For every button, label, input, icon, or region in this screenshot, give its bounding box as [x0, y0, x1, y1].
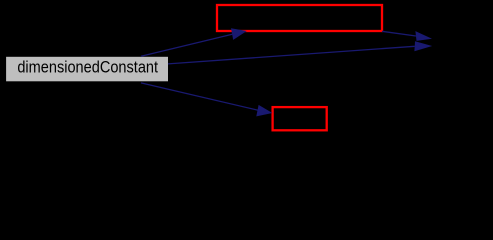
edge dimensionedConstant -> hidden-right node : wire	[168, 46, 415, 64]
edge dimensionedConstant -> truncated-bottom : wire	[141, 83, 258, 110]
edge dimensionedConstant -> truncated-top : arrowhead	[231, 28, 247, 40]
node dimensionedConstant (current node, grey)	[6, 57, 168, 82]
edge dimensionedConstant -> hidden-right : arrowhead	[414, 41, 432, 51]
svg-text:dimensionedConstant: dimensionedConstant	[17, 59, 158, 77]
edge truncated-top -> hidden-right : arrowhead	[415, 31, 432, 41]
node truncated-bottom (red box)	[273, 107, 327, 130]
edge dimensionedConstant -> truncated-bottom : arrowhead	[256, 105, 272, 117]
edge truncated-top -> hidden-right node : wire	[382, 31, 416, 36]
edge dimensionedConstant -> truncated-top : wire	[141, 34, 232, 56]
node truncated-top (red box)	[217, 5, 382, 31]
